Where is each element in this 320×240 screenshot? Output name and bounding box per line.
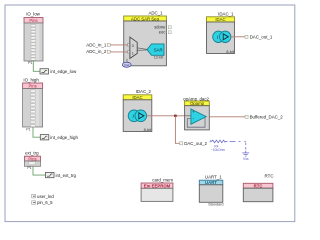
- svg-text:user_led: user_led: [37, 194, 54, 199]
- svg-text:ADC_in_1: ADC_in_1: [86, 42, 107, 47]
- svg-text:DAC_out_2: DAC_out_2: [184, 141, 207, 146]
- svg-text:SAR: SAR: [154, 47, 163, 52]
- svg-text:DAC_out_1: DAC_out_1: [250, 35, 273, 40]
- svg-text:12-bit: 12-bit: [154, 55, 164, 59]
- svg-text:+: +: [192, 110, 195, 115]
- svg-text:IDAC: IDAC: [215, 17, 225, 22]
- svg-text:pin_6_5: pin_6_5: [37, 200, 53, 205]
- svg-text:Pins: Pins: [28, 156, 36, 161]
- svg-text:IDAC: IDAC: [132, 95, 142, 100]
- svg-text:int_edge_low: int_edge_low: [50, 69, 77, 74]
- svg-text:UART_1: UART_1: [205, 175, 222, 180]
- svg-text:8-bit: 8-bit: [144, 128, 152, 132]
- svg-text:ADC_in_2: ADC_in_2: [86, 49, 107, 54]
- svg-text:IO_high: IO_high: [23, 78, 39, 83]
- svg-text:Buffered_DAC_2: Buffered_DAC_2: [250, 115, 284, 120]
- svg-text:int_ext_trg: int_ext_trg: [56, 173, 77, 178]
- svg-text:Vref: Vref: [124, 63, 130, 67]
- svg-text:ADC SAR Seq: ADC SAR Seq: [131, 16, 160, 21]
- svg-text:IO_low: IO_low: [26, 12, 40, 17]
- svg-text:ADC_1: ADC_1: [148, 11, 163, 16]
- svg-text:card_mem: card_mem: [152, 177, 173, 182]
- svg-text:Standard: Standard: [208, 202, 223, 206]
- svg-text:P1: P1: [27, 166, 31, 170]
- svg-text:8-bit: 8-bit: [226, 50, 234, 54]
- svg-text:Em EEPROM: Em EEPROM: [144, 184, 171, 189]
- svg-text:IDAC_1: IDAC_1: [218, 11, 234, 16]
- svg-text:int_edge_high: int_edge_high: [50, 135, 78, 140]
- svg-text:0: 0: [132, 44, 134, 48]
- svg-text:P1: P1: [28, 61, 32, 65]
- svg-text:Pins: Pins: [29, 84, 37, 89]
- svg-text:ext_trg: ext_trg: [25, 151, 39, 156]
- svg-text:Pins: Pins: [29, 18, 37, 23]
- svg-text:P1: P1: [26, 127, 30, 131]
- svg-text:eoc: eoc: [159, 29, 166, 34]
- svg-text:IDAC_2: IDAC_2: [136, 89, 152, 94]
- svg-text:Vss: Vss: [243, 157, 249, 161]
- svg-text:~10kOhm: ~10kOhm: [211, 148, 226, 152]
- svg-text:RTC: RTC: [265, 174, 274, 179]
- svg-text:1: 1: [132, 52, 134, 56]
